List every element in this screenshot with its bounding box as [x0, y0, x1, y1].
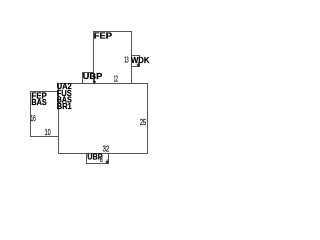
WDK deck box — [132, 56, 140, 67]
svg-text:16: 16 — [31, 113, 36, 123]
svg-text:UBP: UBP — [83, 71, 103, 81]
arrow at WDK corner — [137, 62, 140, 64]
arrow at bottom UBP corner — [106, 159, 109, 161]
svg-text:BAS: BAS — [31, 97, 47, 107]
svg-text:FEP: FEP — [94, 31, 113, 41]
top UBP box — [83, 73, 94, 84]
svg-text:10: 10 — [45, 127, 51, 137]
svg-text:8: 8 — [100, 154, 103, 164]
arrow at top UBP corner — [93, 79, 96, 81]
svg-text:BR1: BR1 — [57, 101, 72, 111]
left FEP/BAS box — [31, 92, 59, 137]
svg-text:25: 25 — [140, 117, 146, 127]
svg-text:13: 13 — [124, 55, 129, 65]
FEP porch box top — [94, 32, 132, 84]
svg-text:32: 32 — [103, 143, 110, 153]
bottom UBP box — [87, 154, 109, 164]
svg-text:12: 12 — [114, 73, 118, 83]
main building outline BAS — [59, 84, 148, 154]
svg-text:WDK: WDK — [131, 55, 150, 65]
